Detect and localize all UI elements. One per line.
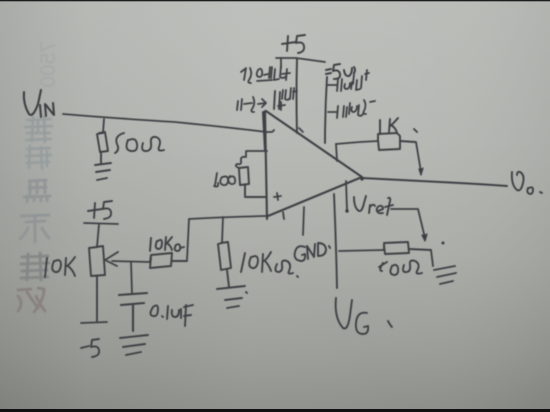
op-amp U1 — [263, 111, 362, 219]
ground (divider) — [434, 266, 456, 284]
label VG. — [336, 298, 392, 334]
resistor 10K vertical (to ground) — [222, 217, 223, 243]
svg-text:7500: 7500 — [37, 41, 60, 88]
ground (pot cap) — [120, 335, 148, 355]
label Vref — [354, 196, 393, 215]
wire +5 rail down to op-amp pin 7 — [296, 59, 299, 133]
wire +5 stub to bypass cap — [280, 58, 282, 68]
capacitor 10uF (-5V bypass) — [328, 100, 375, 118]
resistor 100 (input, beside op-amp) — [236, 151, 267, 168]
annotation pin 7, 0.1uF (top) — [241, 66, 290, 83]
wire pot top bar — [84, 223, 118, 247]
capacitor 0.1uF (pot) — [119, 293, 147, 331]
10uF + polarity mark — [278, 102, 285, 110]
resistor 1K feedback: left wire — [336, 141, 378, 144]
+5 supply label (top) — [282, 35, 305, 53]
resistor 1K — [378, 133, 415, 150]
capacitor 0.1uF (-5V bypass) — [327, 70, 369, 91]
wire feedback right drop with arrow — [416, 142, 421, 172]
ground (10K vertical) — [217, 286, 247, 308]
label +5 (pot) — [88, 201, 112, 219]
ink strokes — [24, 35, 542, 357]
pot wiper arrow — [105, 252, 150, 266]
resistor 50R input shunt lead — [103, 119, 104, 133]
resistor 50R divider: left wire — [339, 250, 384, 251]
resistor 10K horizontal — [150, 253, 187, 268]
letterbox bars — [0, 0, 550, 1]
label 0.1uF (pot) — [151, 305, 194, 326]
capacitor 0.1uF (pot) lead — [131, 262, 132, 293]
label 10KOhm — [241, 252, 298, 277]
label GND. — [295, 243, 330, 261]
resistor 50R divider — [384, 242, 431, 254]
label 100 — [214, 173, 235, 187]
label 50R — [115, 133, 164, 153]
label -5 (pot) — [81, 339, 99, 357]
capacitor 10uF (top bypass) — [274, 91, 280, 109]
wire loop left drop to op-amp top edge — [336, 144, 337, 161]
potentiometer 10K — [89, 246, 105, 321]
-5V supply label — [326, 64, 355, 79]
wire GND pin — [303, 207, 304, 235]
op-amp + input mark — [274, 193, 281, 200]
wire VIN to op-amp — [63, 114, 274, 132]
wire divider to ground — [431, 250, 433, 266]
wire inverting node down (GND side vertical) — [334, 194, 337, 288]
label 10K — [45, 257, 75, 277]
+5 rail — [276, 58, 325, 62]
wire op-amp output to Vo — [362, 178, 507, 186]
wire Vref tap from output — [346, 181, 347, 210]
wire -5V rail down — [325, 77, 327, 143]
label VIN — [24, 90, 54, 117]
label Vo — [512, 172, 542, 194]
wire pot bottom bar — [81, 322, 107, 323]
wire Vref to divider (right, with arrow) — [391, 209, 425, 238]
annotation pin 4, 10uF+ cap (top) — [237, 97, 266, 112]
resistor 50R input shunt — [97, 132, 108, 163]
label 1K — [380, 118, 417, 134]
watermark show-through text (mirrored) — [18, 41, 60, 312]
wire bottom node left drop — [187, 219, 189, 260]
op-amp pin stub below — [283, 212, 284, 219]
label 10Ke — [150, 237, 184, 251]
ground (input) — [95, 163, 111, 180]
pin 7 junction tick — [299, 128, 303, 132]
wire bottom node horizontal — [189, 216, 266, 219]
label 50R divider — [379, 261, 422, 276]
